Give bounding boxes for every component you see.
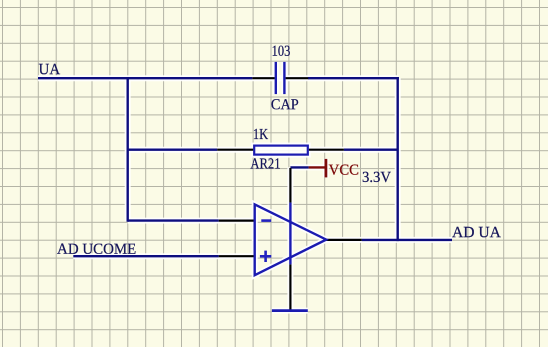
ground bar [272, 309, 308, 312]
svg-text:103: 103 [272, 43, 291, 60]
capacitor CAP plates [276, 62, 285, 94]
VCC power port bar [324, 159, 327, 178]
wire: top row right of capacitor to right bus [308, 77, 399, 79]
svg-text:3.3V: 3.3V [362, 169, 391, 186]
pin: capacitor right lead [286, 77, 309, 79]
pin: op-amp non-inverting input pin [219, 255, 255, 257]
op-amp U? triangle body [255, 204, 327, 275]
svg-text:VCC: VCC [329, 162, 359, 179]
wire: left vertical from UA row down to inverting input row [126, 77, 128, 222]
svg-text:AD UA: AD UA [452, 224, 502, 241]
wire: VCC row to op-amp V+ pin [290, 166, 308, 168]
wire: AD_UCOME to non-inverting input [73, 255, 218, 257]
svg-text:UA: UA [39, 61, 61, 78]
pin: resistor left lead [217, 149, 253, 151]
wire: resistor row, right segment to right bus [344, 148, 398, 150]
pin: resistor right lead [309, 149, 344, 151]
pin: op-amp output pin [326, 239, 362, 241]
op-amp minus symbol [261, 219, 271, 222]
op-amp internal power rail segment [289, 203, 291, 265]
svg-text:1K: 1K [253, 126, 268, 143]
wire: UA net, top row left of capacitor [38, 77, 252, 79]
white halos under wires (jpeg-like ring) [38, 62, 452, 311]
wire: inverting input row [128, 219, 219, 221]
wire: op-amp output row to AD_UA [362, 239, 452, 241]
pin: op-amp V+ power pin [289, 168, 291, 203]
svg-text:AR21: AR21 [250, 155, 280, 172]
pin: capacitor left lead [252, 77, 274, 79]
svg-text:CAP: CAP [271, 96, 299, 113]
pin: op-amp inverting input pin [219, 220, 255, 222]
pin: op-amp V- power pin to ground [289, 264, 291, 310]
VCC power port stem [309, 166, 326, 168]
resistor AR21 body [254, 146, 308, 155]
op-amp plus symbol [260, 251, 271, 262]
wire: right vertical bus from top row down to output row [397, 77, 399, 241]
wire: resistor row, left segment [128, 148, 218, 150]
svg-text:AD UCOME: AD UCOME [57, 241, 136, 258]
